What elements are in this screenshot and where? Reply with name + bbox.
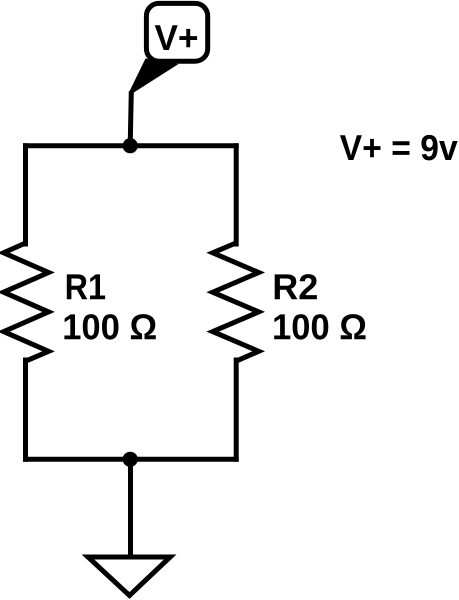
wire stub to ground: [128, 459, 133, 555]
wire left branch lower: [23, 360, 28, 459]
wire from net flag to top node: [130, 91, 131, 146]
annotation V+ = 9v: [340, 135, 458, 161]
wire bottom horizontal: [26, 457, 237, 462]
wire right branch upper: [234, 146, 239, 244]
value label 100 Ω for R2: [274, 314, 365, 340]
wire top horizontal: [26, 143, 237, 148]
label R2: [275, 274, 317, 299]
wire right branch lower: [234, 360, 239, 459]
node top junction dot: [123, 138, 138, 153]
wire left branch upper: [23, 146, 28, 244]
net flag V+ pointer tail: [129, 59, 179, 93]
resistor R2: [213, 243, 259, 361]
label R1: [67, 274, 105, 299]
net flag V+ box: [146, 3, 207, 61]
node bottom junction dot: [123, 452, 138, 467]
ground symbol: [88, 557, 170, 596]
value label 100 Ω for R1: [64, 314, 155, 340]
net flag V+ label text: [155, 25, 197, 50]
resistor R1: [4, 243, 49, 361]
